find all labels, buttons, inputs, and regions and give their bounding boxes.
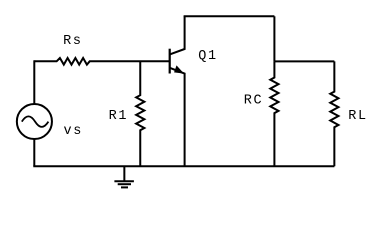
svg-text:RL: RL (348, 109, 368, 124)
svg-text:RC: RC (244, 94, 264, 109)
svg-text:Rs: Rs (63, 34, 83, 49)
svg-text:vs: vs (64, 124, 84, 139)
svg-text:Q1: Q1 (198, 49, 218, 64)
svg-text:R1: R1 (109, 109, 129, 124)
